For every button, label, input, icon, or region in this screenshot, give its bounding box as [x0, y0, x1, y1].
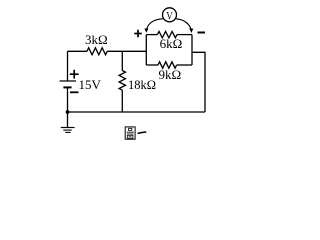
- svg-text:18kΩ: 18kΩ: [128, 78, 156, 92]
- svg-text:9kΩ: 9kΩ: [158, 67, 181, 82]
- svg-text:6kΩ: 6kΩ: [160, 36, 183, 51]
- svg-text:3kΩ: 3kΩ: [85, 32, 108, 47]
- svg-text:15V: 15V: [79, 77, 102, 92]
- svg-text:V: V: [166, 9, 173, 23]
